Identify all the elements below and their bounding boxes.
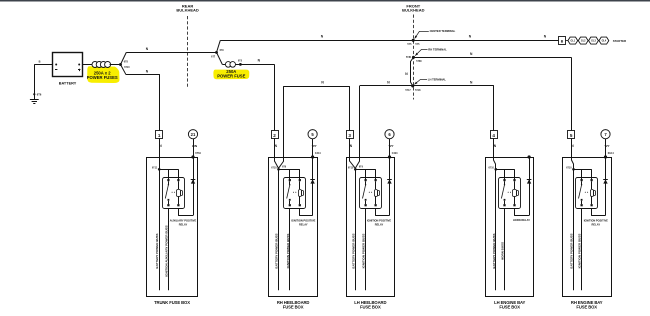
svg-text:RELAY: RELAY [179, 223, 188, 227]
svg-text:5T17: 5T17 [405, 90, 411, 92]
svg-text:6T7: 6T7 [211, 57, 216, 59]
svg-text:B: B [39, 59, 41, 63]
svg-text:FUSE BOX: FUSE BOX [499, 304, 520, 309]
svg-text:6T8: 6T8 [124, 62, 129, 64]
svg-text:1: 1 [158, 133, 161, 138]
svg-text:6T9: 6T9 [359, 167, 364, 169]
svg-text:GL4: GL4 [602, 40, 607, 43]
svg-text:BATTERY POWER BUSS: BATTERY POWER BUSS [155, 233, 159, 268]
svg-text:FUSE BOX: FUSE BOX [360, 304, 381, 309]
svg-text:BATTERY: BATTERY [59, 81, 77, 85]
svg-text:6T11: 6T11 [152, 167, 158, 169]
svg-text:IGNITION POSITIVE: IGNITION POSITIVE [291, 219, 315, 223]
svg-text:TRUNK FUSE BOX: TRUNK FUSE BOX [154, 300, 190, 305]
svg-text:3: 3 [348, 133, 351, 138]
svg-text:5T80: 5T80 [416, 61, 422, 63]
svg-text:POWER FUSES: POWER FUSES [87, 75, 118, 80]
svg-text:IGNITION POWER BUSS: IGNITION POWER BUSS [286, 234, 290, 269]
svg-text:6T10: 6T10 [271, 167, 277, 169]
svg-text:BATTERY POWER BUSS: BATTERY POWER BUSS [351, 233, 355, 268]
svg-text:CENTER TERMINAL: CENTER TERMINAL [430, 29, 456, 33]
svg-text:POWER FUSE: POWER FUSE [217, 74, 245, 79]
svg-text:BATTERY POWER BUSS: BATTERY POWER BUSS [570, 233, 574, 268]
svg-text:6T9: 6T9 [282, 167, 287, 169]
svg-text:C424: C424 [392, 152, 398, 155]
svg-text:BATTERY POWER BUSS: BATTERY POWER BUSS [275, 233, 279, 268]
svg-text:4: 4 [492, 133, 495, 138]
svg-text:6T64: 6T64 [195, 152, 201, 155]
svg-text:HORN RELAY: HORN RELAY [513, 218, 530, 222]
svg-text:FUSE BOX: FUSE BOX [576, 304, 597, 309]
svg-text:BULKHEAD: BULKHEAD [176, 8, 199, 13]
svg-text:6T10: 6T10 [124, 67, 130, 69]
svg-text:BULKHEAD: BULKHEAD [402, 8, 425, 13]
svg-text:21: 21 [191, 132, 196, 137]
svg-text:6T9: 6T9 [220, 50, 225, 52]
svg-text:5T5: 5T5 [407, 44, 412, 46]
svg-text:IGNITION POWER BUSS: IGNITION POWER BUSS [362, 234, 366, 269]
svg-text:RH TERMINAL: RH TERMINAL [428, 47, 447, 51]
svg-text:5T5: 5T5 [415, 44, 420, 46]
svg-text:STARTER: STARTER [613, 39, 627, 43]
svg-text:IGNITION POSITIVE: IGNITION POSITIVE [367, 219, 391, 223]
svg-text:FUSE BOX: FUSE BOX [283, 304, 304, 309]
svg-text:LH TERMINAL: LH TERMINAL [428, 77, 447, 81]
svg-text:6T6: 6T6 [37, 93, 42, 97]
svg-text:IGNITION AUXILIARY POWER BUSS: IGNITION AUXILIARY POWER BUSS [164, 225, 168, 276]
svg-text:WN: WN [192, 144, 198, 148]
svg-text:5: 5 [570, 133, 573, 138]
svg-text:RELAY: RELAY [299, 223, 308, 227]
svg-text:AUXILIARY POSITIVE: AUXILIARY POSITIVE [170, 219, 197, 223]
svg-text:2: 2 [273, 133, 276, 138]
svg-text:5T18: 5T18 [415, 90, 421, 92]
svg-text:C414: C414 [315, 152, 321, 155]
svg-text:6G14: 6G14 [608, 152, 615, 155]
svg-text:RELAY: RELAY [592, 223, 601, 227]
svg-text:HORN BUSS: HORN BUSS [501, 242, 505, 260]
svg-text:GL3: GL3 [591, 40, 596, 43]
svg-text:GL1: GL1 [570, 40, 575, 43]
svg-text:6T10: 6T10 [566, 167, 572, 169]
svg-text:6T10: 6T10 [348, 167, 354, 169]
svg-text:6T10: 6T10 [488, 167, 494, 169]
svg-text:IGNITION POWER BUSS: IGNITION POWER BUSS [578, 234, 582, 269]
svg-text:RELAY: RELAY [375, 223, 384, 227]
svg-text:IGNITION POSITIVE: IGNITION POSITIVE [584, 219, 608, 223]
svg-text:GL2: GL2 [581, 40, 586, 43]
svg-text:5T81: 5T81 [406, 57, 412, 59]
svg-text:6T5: 6T5 [238, 60, 243, 62]
svg-text:BATTERY POWER BUSS: BATTERY POWER BUSS [492, 233, 496, 268]
